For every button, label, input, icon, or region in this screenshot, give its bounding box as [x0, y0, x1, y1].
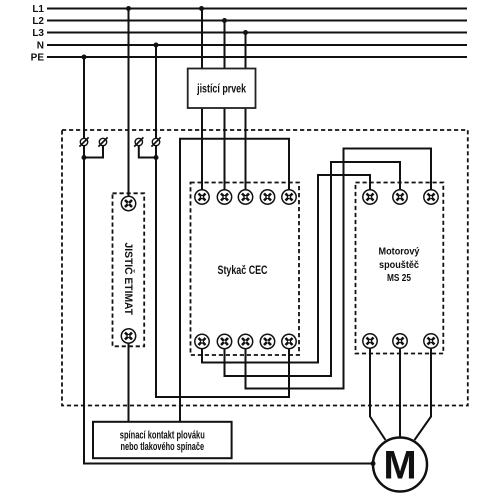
wire contactor T3 to motor starter L3 [246, 149, 432, 389]
wire PE bus [47, 56, 467, 58]
motor starter terminal L2 [393, 190, 407, 204]
wire motor starter W to motor [415, 341, 432, 440]
svg-text:L2: L2 [32, 16, 44, 27]
svg-text:Motorový: Motorový [379, 246, 420, 258]
breaker dashed box JISTIC ETIMAT [113, 193, 145, 346]
contactor terminal L2 [217, 190, 231, 204]
motor starter dashed box MS 25 [356, 183, 444, 354]
wire L1 drop to breaker [128, 9, 130, 204]
wire L1 bus [47, 8, 467, 10]
junction dot L1 fuse tap [199, 6, 204, 11]
motor M1 circle [373, 438, 427, 492]
contactor terminal A1 coil [282, 190, 296, 204]
svg-text:nebo tlakového spínače: nebo tlakového spínače [121, 441, 205, 453]
svg-text:jistící prvek: jistící prvek [196, 82, 246, 96]
wire L1 drop to fuse box and contactor [201, 9, 203, 198]
contactor terminal A2 coil [282, 334, 296, 348]
contactor terminal NO aux bottom [260, 334, 274, 348]
svg-text:L1: L1 [32, 4, 44, 15]
junction dot terminal pair 2 [154, 155, 159, 160]
wire N bus [47, 44, 467, 46]
svg-text:N: N [37, 41, 44, 52]
contactor terminal T3 [238, 334, 252, 348]
motor starter terminal L3 [424, 190, 438, 204]
wire breaker to float switch box [128, 336, 130, 422]
svg-text:PE: PE [31, 53, 45, 64]
junction dot motor PE connection [371, 461, 376, 466]
svg-text:M: M [383, 444, 416, 488]
breaker terminal top [121, 196, 135, 210]
junction dot L2 fuse tap [222, 18, 227, 23]
svg-text:L3: L3 [32, 28, 44, 39]
svg-text:spouštěč: spouštěč [379, 259, 419, 271]
motor starter terminal U [363, 334, 377, 348]
wire terminal pair 1 branch [84, 142, 103, 158]
enclosure dashed boundary box [62, 130, 468, 406]
motor starter terminal V [393, 334, 407, 348]
wire L2 bus [47, 20, 467, 22]
terminal X1 on PE [79, 137, 88, 146]
wire N drop to contactor coil A2 [156, 45, 289, 397]
wire contactor T1 to motor starter L1 [202, 175, 370, 363]
float switch box [93, 422, 232, 458]
svg-text:JISTIČ ETIMAT: JISTIČ ETIMAT [122, 243, 135, 316]
terminal X4 on N [151, 137, 160, 146]
wire terminal pair 2 branch [139, 142, 156, 158]
junction dot terminal pair 1 [82, 155, 87, 160]
fuse box U0 jisticí prvek [188, 69, 256, 109]
contactor terminal NO aux top [260, 190, 274, 204]
junction dot L1 breaker tap [126, 6, 131, 11]
contactor terminal T2 [217, 334, 231, 348]
contactor terminal L1 [195, 190, 209, 204]
motor starter terminal L1 [363, 190, 377, 204]
wire float switch to contactor coil A1 [180, 139, 289, 422]
junction dot N tap [154, 43, 159, 48]
junction dot L3 fuse tap [243, 30, 248, 35]
wire motor starter V to motor [399, 341, 401, 438]
wire L3 drop to fuse box and contactor [245, 33, 247, 198]
svg-text:spínací kontakt plováku: spínací kontakt plováku [120, 430, 205, 442]
wire PE drop to motor [84, 57, 373, 464]
terminal X2 [98, 137, 107, 146]
contactor terminal L3 [238, 190, 252, 204]
contactor terminal T1 [195, 334, 209, 348]
wire contactor T2 to motor starter L2 [225, 162, 401, 376]
svg-text:MS 25: MS 25 [387, 272, 411, 284]
svg-text:Stykač CEC: Stykač CEC [218, 263, 268, 277]
wire L3 bus [47, 32, 467, 34]
wire motor starter U to motor [370, 341, 386, 440]
contactor dashed box Stykac CEC [191, 183, 300, 356]
junction dot PE tap [82, 55, 87, 60]
wire L2 drop to fuse box and contactor [224, 21, 226, 198]
breaker terminal bottom [121, 329, 135, 343]
terminal X3 [134, 137, 143, 146]
motor starter terminal W [424, 334, 438, 348]
